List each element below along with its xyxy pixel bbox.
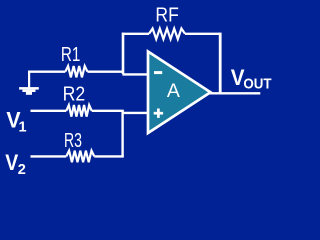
svg-text:R1: R1	[61, 44, 81, 66]
svg-text:A: A	[167, 80, 180, 102]
svg-text:RF: RF	[155, 5, 178, 27]
svg-text:1: 1	[19, 120, 27, 136]
svg-text:R2: R2	[63, 84, 86, 106]
svg-text:OUT: OUT	[243, 76, 271, 93]
svg-text:2: 2	[18, 162, 26, 178]
svg-text:V: V	[5, 150, 18, 175]
svg-text:R3: R3	[64, 130, 82, 152]
